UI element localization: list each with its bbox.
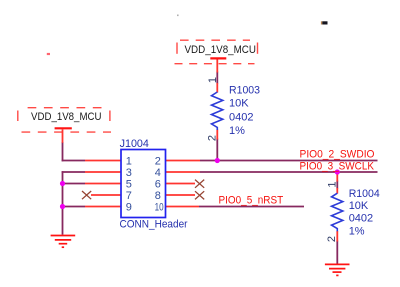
svg-text:1: 1	[126, 156, 132, 168]
svg-text:VDD_1V8_MCU: VDD_1V8_MCU	[185, 44, 257, 56]
svg-text:PIO0_2_SWDIO: PIO0_2_SWDIO	[300, 148, 375, 160]
svg-text:4: 4	[155, 167, 161, 179]
svg-text:1%: 1%	[349, 225, 365, 237]
svg-text:J1004: J1004	[120, 138, 149, 150]
svg-text:R1004: R1004	[349, 188, 380, 200]
svg-text:2: 2	[326, 236, 338, 242]
svg-text:10K: 10K	[229, 98, 249, 110]
svg-text:1: 1	[207, 77, 219, 83]
svg-text:7: 7	[126, 190, 132, 202]
svg-text:3: 3	[126, 167, 132, 179]
svg-text:1: 1	[327, 181, 339, 187]
svg-text:PIO0_3_SWCLK: PIO0_3_SWCLK	[300, 161, 375, 173]
svg-text:9: 9	[126, 202, 132, 214]
svg-text:0402: 0402	[349, 212, 373, 224]
svg-text:PIO0_5_nRST: PIO0_5_nRST	[219, 195, 284, 207]
svg-text:10K: 10K	[349, 200, 369, 212]
svg-text:5: 5	[126, 179, 132, 191]
svg-text:1%: 1%	[229, 125, 245, 137]
svg-text:0402: 0402	[229, 112, 253, 124]
svg-text:CONN_Header: CONN_Header	[120, 218, 188, 230]
svg-text:2: 2	[207, 135, 219, 141]
svg-text:8: 8	[155, 190, 161, 202]
svg-text:VDD_1V8_MCU: VDD_1V8_MCU	[31, 111, 102, 123]
svg-text:10: 10	[155, 202, 164, 214]
svg-text:6: 6	[155, 179, 161, 191]
svg-text:2: 2	[155, 156, 161, 168]
svg-text:R1003: R1003	[229, 85, 260, 97]
